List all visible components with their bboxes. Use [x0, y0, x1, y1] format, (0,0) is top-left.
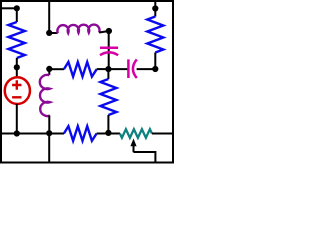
wire from node down to R1 — [16, 8, 18, 22]
wire node (108,69) to capacitor C2 — [108, 68, 127, 70]
wire top-left horizontal to node — [1, 7, 17, 9]
wire L2 right end to node — [99, 31, 109, 33]
node dot (17,67) — [14, 64, 20, 70]
wire node down to bottom border — [48, 133, 50, 162]
bottom row wire left: border to R5 — [1, 133, 64, 135]
wire node to resistor R3 — [154, 9, 156, 17]
wire R2 to node (108,69) — [97, 68, 109, 70]
wire R5 to node (108,133) — [97, 133, 109, 135]
V1 minus sign — [12, 96, 21, 98]
inductor L2 (top horizontal, purple coil) — [57, 25, 99, 34]
wire node (108,133) to potentiometer — [108, 133, 120, 135]
capacitor C1 bottom plate (curved) — [100, 52, 118, 55]
wire P1 right to border — [152, 133, 173, 135]
wiper wire right then down to bottom border — [134, 152, 156, 162]
wire R3 bottom to node (155,69) — [154, 53, 156, 70]
wiper arrowhead of P1 — [130, 139, 136, 147]
wire node to source top — [16, 67, 18, 77]
node dot (108,133) — [105, 130, 111, 136]
node dot (17,8) — [14, 5, 20, 11]
wire R1 bottom to node — [16, 58, 18, 67]
resistor R3 (top-right vertical, blue) — [147, 17, 163, 53]
capacitor C1 top plate (straight) — [100, 47, 118, 50]
wire C2 to node (155,69) — [137, 68, 156, 70]
node dot (155,69) — [152, 66, 158, 72]
resistor R1 (top-left vertical, blue) — [8, 22, 24, 58]
wire node (108,69) down to R4 — [107, 69, 109, 79]
resistor R5 (bottom horizontal, blue) — [64, 126, 97, 141]
node dot (109,31) — [106, 28, 112, 34]
wire R4 bottom to node (108,133) — [107, 115, 109, 133]
node dot (108,69) — [105, 66, 111, 72]
resistor R2 (middle horizontal, blue) — [64, 62, 97, 77]
inductor L1 (left vertical purple coil) — [40, 75, 50, 116]
wire L1 bottom to node (49,133) — [48, 116, 50, 134]
resistor R4 (middle vertical, blue) — [100, 79, 116, 115]
capacitor C2 right plate (curved) — [133, 59, 137, 78]
wire node (49,69) down to L1 — [48, 69, 50, 75]
wire top border down to node (155,8) — [154, 1, 156, 9]
node dot (49,133) — [46, 130, 52, 136]
wire node to resistor R2 — [49, 68, 64, 70]
capacitor C2 left plate (straight) — [127, 59, 130, 78]
voltage source V1 (red circle) — [5, 77, 30, 104]
wire node down to capacitor C1 — [108, 31, 110, 69]
node dot (155,8) — [152, 5, 158, 11]
node dot (49,69) — [46, 66, 52, 72]
border frame — [1, 1, 173, 163]
wire top border down to node (49,33) — [48, 1, 50, 33]
potentiometer P1 (teal zigzag) — [120, 129, 152, 138]
node dot (17,133) — [14, 130, 20, 136]
wiper arrow shaft of P1 — [133, 146, 135, 153]
wire node to inductor L2 — [49, 32, 57, 34]
node dot (49,33) — [46, 30, 52, 36]
wire source bottom to bottom row — [16, 104, 18, 134]
V1 plus sign — [12, 80, 21, 89]
